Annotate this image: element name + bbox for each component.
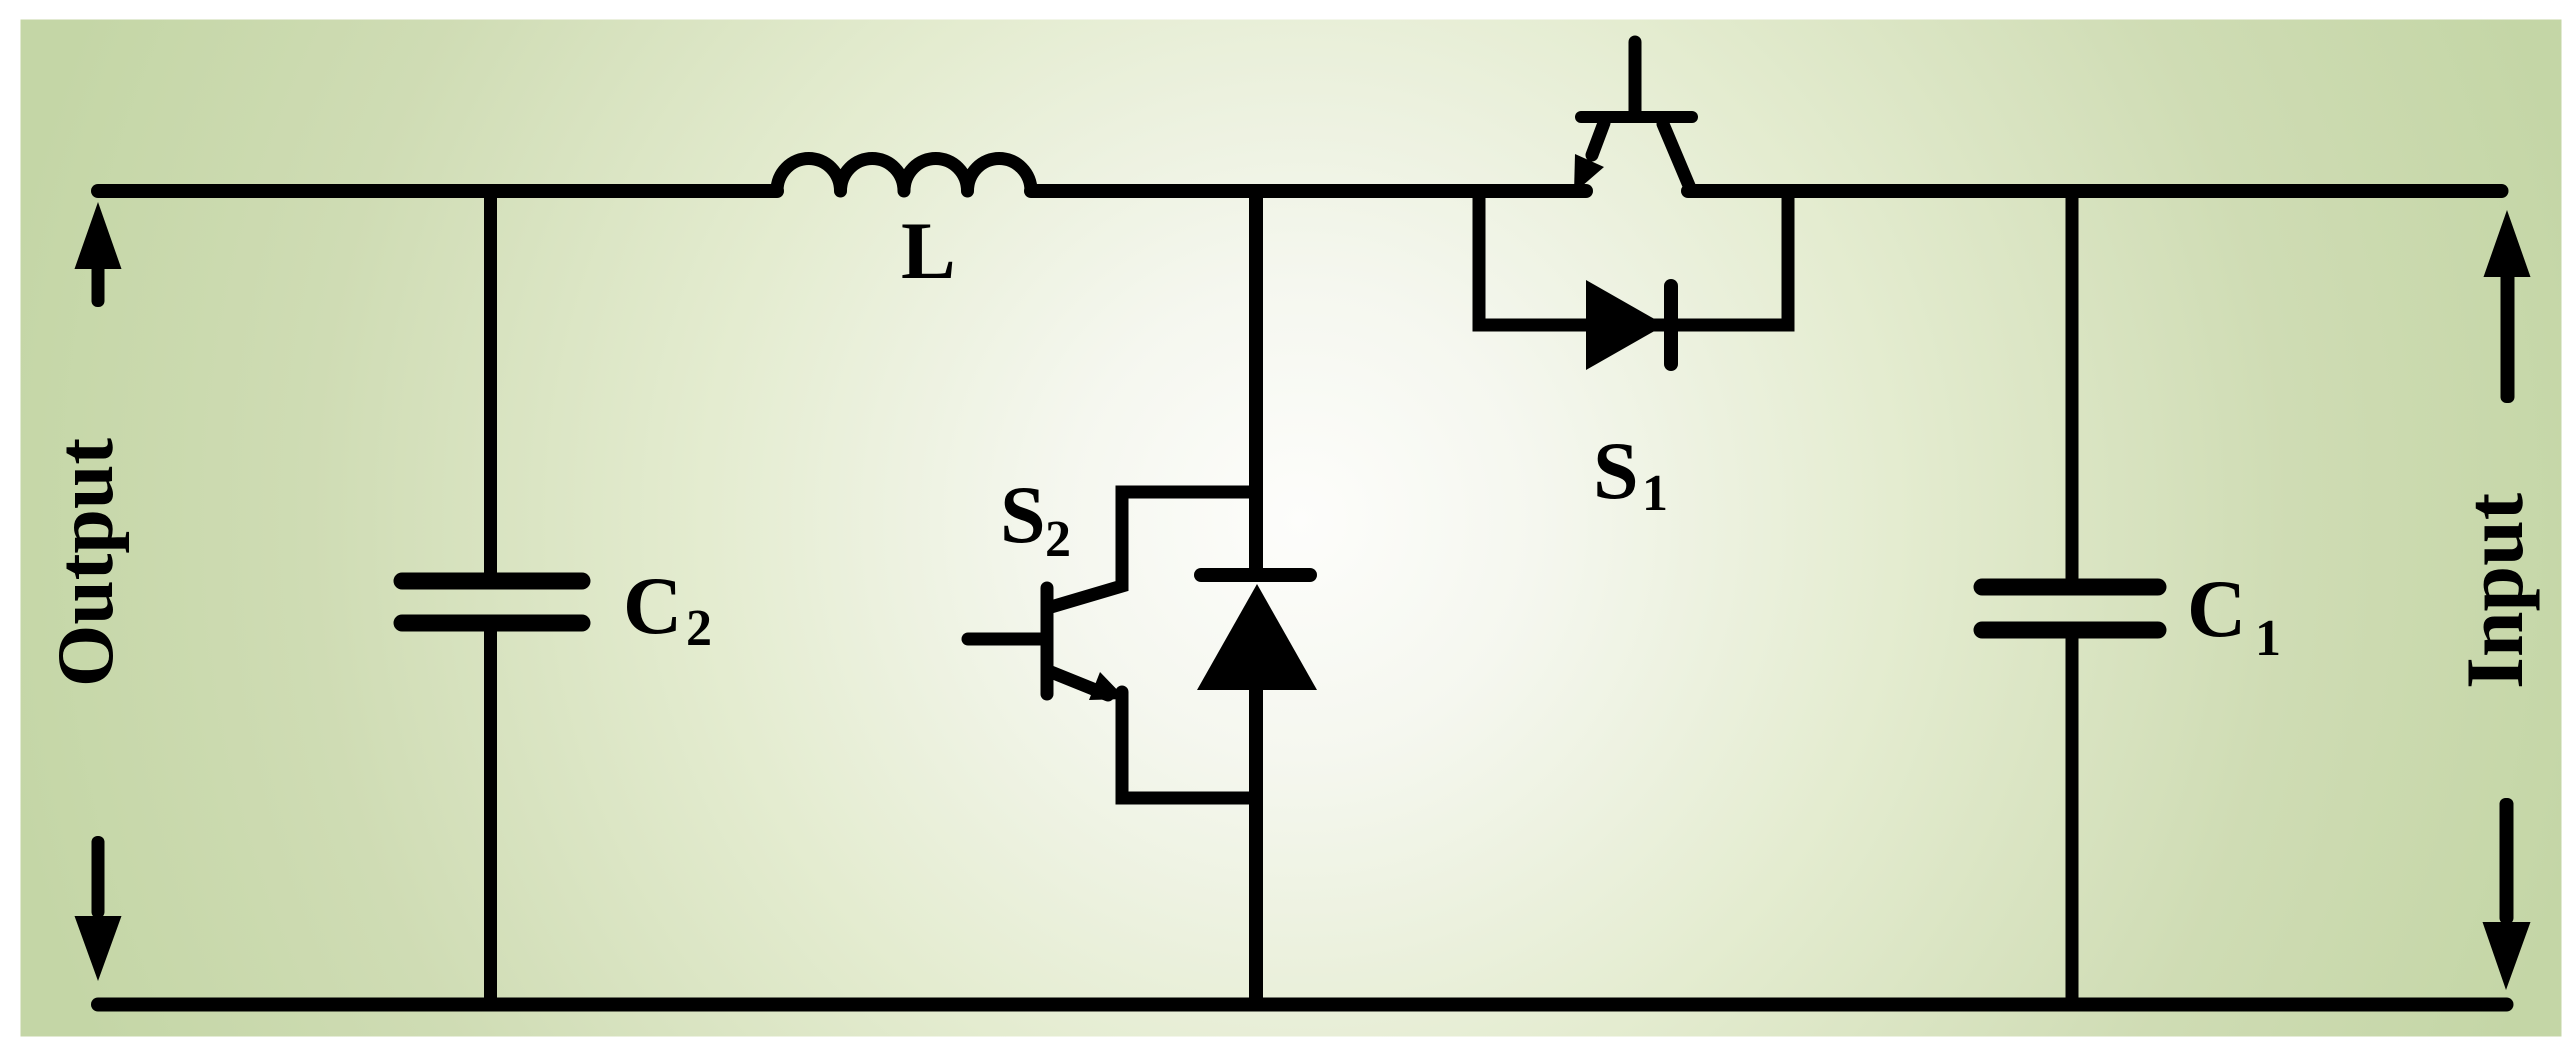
svg-text:2: 2 xyxy=(686,600,712,657)
svg-text:L: L xyxy=(901,205,956,296)
svg-text:2: 2 xyxy=(1045,511,1071,568)
svg-text:1: 1 xyxy=(1642,465,1668,522)
svg-text:S: S xyxy=(1593,425,1639,516)
svg-text:Output: Output xyxy=(42,438,130,687)
svg-text:C: C xyxy=(623,560,682,651)
svg-text:1: 1 xyxy=(2255,610,2281,667)
svg-text:S: S xyxy=(1000,469,1046,560)
svg-text:Input: Input xyxy=(2449,493,2540,689)
svg-text:C: C xyxy=(2187,563,2246,654)
